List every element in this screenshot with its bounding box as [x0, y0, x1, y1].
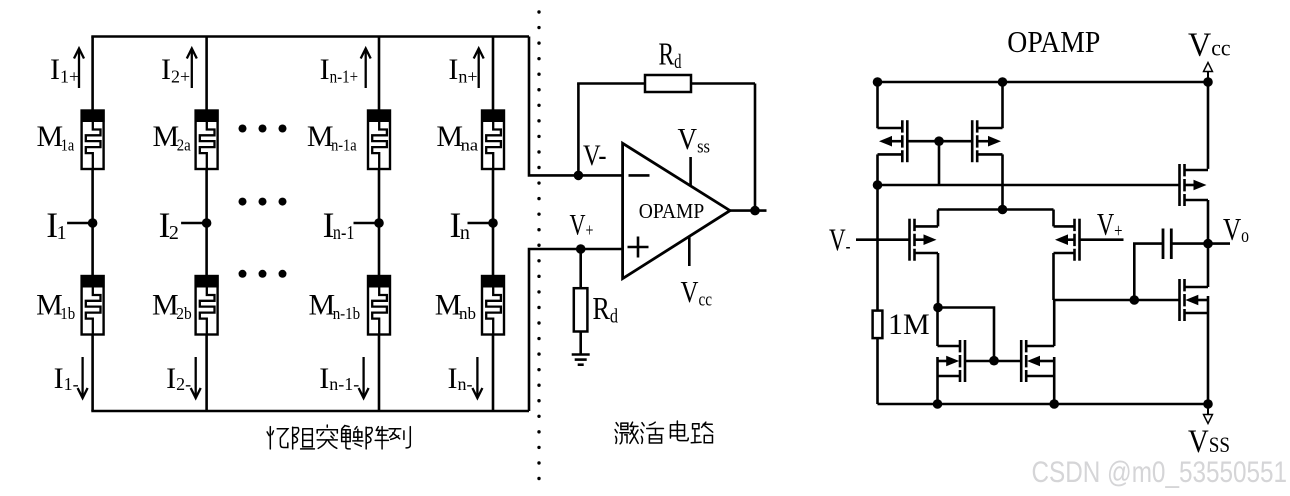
wire column 3 mid-lower segment: [378, 223, 381, 276]
transistor Q5 (NMOS mirror left): [938, 340, 995, 382]
resistor Rd feedback: [645, 75, 691, 92]
svg-text:1M: 1M: [888, 308, 930, 341]
wire left vertical to resistor: [876, 185, 879, 311]
wire right vertical upper: [1207, 82, 1210, 169]
svg-text:OPAMP: OPAMP: [1007, 25, 1100, 59]
wire column 1 mid-lower segment: [91, 223, 94, 276]
node V+ junction: [576, 244, 586, 254]
transistor Q2 (PMOS mirror right): [939, 120, 1003, 162]
node diff source rail: [998, 205, 1008, 215]
wire Vo stub: [1208, 242, 1230, 245]
arrow up In+: [474, 49, 484, 89]
wire gate tie down to mid rail: [938, 141, 941, 185]
wire right vertical to Vo: [1207, 200, 1210, 244]
transistor Q6 (NMOS mirror right): [994, 340, 1054, 382]
op-amp minus sign: [629, 174, 650, 177]
arrow down I2-: [191, 357, 201, 398]
node bottom-mirror gate: [989, 356, 999, 366]
op-amp Vcc stub: [688, 236, 691, 267]
memristor Mnb: [481, 275, 505, 335]
node bottom rail q5: [933, 399, 943, 409]
node In junction: [488, 218, 498, 228]
memristor M1b: [81, 275, 105, 335]
resistor 1M: [873, 311, 883, 339]
wire Q5 source down: [936, 376, 939, 404]
node mid rail left: [873, 180, 883, 190]
wire column 4 mid-upper segment: [492, 169, 495, 223]
wire Q8 source down: [1207, 313, 1210, 404]
wire second-stage gate line: [1054, 299, 1179, 302]
wire column 1 upper segment: [91, 37, 94, 111]
node top rail middle: [998, 77, 1008, 87]
wire op-amp output: [728, 209, 767, 212]
memristor Mn-1a: [367, 110, 391, 170]
arrow down In-1-: [359, 357, 369, 398]
transistor Q7 (PMOS output): [1180, 164, 1209, 206]
wire V+ node to resistor: [579, 249, 582, 288]
wire column 4 mid-lower segment: [492, 223, 495, 276]
wire V- lead: [856, 238, 910, 241]
wire column 4 lower segment: [492, 335, 495, 412]
wire left vertical lower: [876, 338, 879, 404]
wire column 3 mid-upper segment: [378, 169, 381, 223]
transistor Q1 (PMOS mirror left): [878, 120, 940, 162]
capacitor C1: [1162, 229, 1165, 260]
node V- junction: [574, 171, 584, 181]
transistor Q8 (NMOS output): [1180, 279, 1209, 321]
wire bottom-rail riser to V+ line: [529, 249, 581, 411]
memristor Mna: [481, 110, 505, 170]
node In stub: [468, 222, 494, 225]
wire feedback right vertical: [754, 84, 757, 211]
wire resistor to ground: [579, 332, 582, 355]
wire column 3 upper segment: [378, 37, 381, 111]
node top rail left: [873, 77, 883, 87]
node In-1 junction: [374, 218, 384, 228]
node bottom rail right: [1203, 399, 1213, 409]
node gate line junction: [1130, 295, 1140, 305]
wire Q4 drain up: [1052, 210, 1055, 227]
memristor M1a: [81, 110, 105, 170]
wire V+ input to op-amp: [581, 248, 623, 251]
wire column 2 mid-lower segment: [205, 223, 208, 276]
node I2 stub: [181, 222, 207, 225]
wire column 4 upper segment: [492, 37, 495, 111]
wire column 2 upper segment: [205, 37, 208, 111]
wire column 2 mid-upper segment: [205, 169, 208, 223]
node tail junction: [933, 303, 943, 313]
wire Q1 source down to mid rail: [876, 154, 879, 185]
svg-text:V-: V-: [583, 139, 607, 172]
ellipsis dots lower row: [239, 270, 247, 278]
wire Q3 drain up to source rail: [937, 210, 940, 227]
node I1 stub: [67, 222, 93, 225]
wire V+ lead: [1080, 238, 1124, 241]
memristor Mn-1b: [367, 275, 391, 335]
wire Q4 source down to y300: [1052, 253, 1055, 300]
wire middle gate rail: [878, 184, 1179, 187]
wire diff source rail: [938, 208, 1054, 211]
label crossbar section (忆阻突触阵列): [267, 427, 288, 449]
wire V- input to op-amp: [578, 174, 622, 177]
wire column 3 lower segment: [378, 335, 381, 412]
wire bottom rail of crossbar: [91, 410, 529, 413]
node I2 junction: [202, 218, 212, 228]
node Q1-Q2 gate tie: [934, 136, 944, 146]
wire column 1 lower segment: [91, 335, 94, 412]
op-amp Vss stub: [689, 157, 692, 186]
node In-1 stub: [354, 222, 380, 225]
wire Q3 source down to tail: [937, 253, 940, 308]
wire second vertical upper: [1001, 82, 1004, 128]
arrow down I1-: [78, 357, 88, 398]
wire left vertical upper: [876, 82, 879, 128]
memristor M2a: [195, 110, 219, 170]
ellipsis dots upper row: [239, 125, 247, 133]
wire feedback left vertical: [577, 84, 580, 176]
ground symbol: [572, 353, 590, 356]
power Vcc arrow: [1204, 63, 1213, 83]
node output junction: [750, 206, 760, 216]
arrow up I1+: [74, 49, 84, 89]
transistor Q3 (diff pair left): [910, 219, 939, 261]
svg-text:OPAMP: OPAMP: [639, 199, 705, 223]
arrow up In-1+: [361, 49, 371, 89]
wire Q6 drain up to y300: [1053, 300, 1056, 346]
wire top rail of crossbar: [91, 35, 529, 38]
wire Q5 drain up to tail: [936, 308, 939, 347]
memristor M2b: [195, 275, 219, 335]
resistor Rd ground leg: [574, 288, 588, 331]
wire Q6 source down: [1053, 376, 1056, 404]
op-amp triangle: [623, 143, 730, 278]
transistor Q4 (diff pair right): [1054, 219, 1080, 261]
wire Q2 source down crossing mid rail: [1001, 154, 1004, 209]
dotted separator line: [537, 10, 540, 480]
wire top supply rail: [878, 81, 1209, 84]
wire feedback top right: [691, 82, 755, 85]
wire bottom rail: [878, 403, 1209, 406]
arrow down In-: [472, 357, 482, 398]
power Vss arrow: [1204, 404, 1213, 424]
wire tail to gate-node link: [938, 308, 994, 361]
wire feedback top left: [577, 82, 645, 85]
arrow up I2+: [187, 49, 197, 89]
wire column 1 mid-upper segment: [91, 169, 94, 223]
label activation section (激活电路): [615, 422, 638, 444]
ellipsis dots middle row: [239, 198, 247, 206]
node top rail right: [1203, 77, 1213, 87]
op-amp plus sign: [628, 246, 649, 249]
node bottom rail q6: [1049, 399, 1059, 409]
wire Vo down to Q8: [1207, 244, 1210, 287]
node Vo junction: [1203, 239, 1213, 249]
svg-text:CSDN @m0_53550551: CSDN @m0_53550551: [1032, 456, 1288, 489]
node I1 junction: [88, 218, 98, 228]
wire column 2 lower segment: [205, 335, 208, 412]
wire top-rail riser to V- line: [529, 37, 578, 176]
